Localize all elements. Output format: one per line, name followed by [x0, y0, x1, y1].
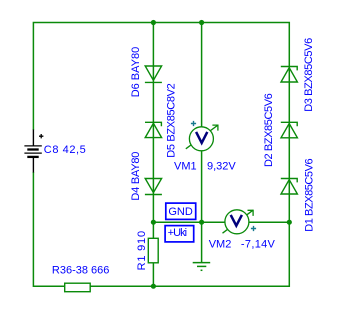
svg-text:C8 42,5: C8 42,5: [44, 144, 86, 156]
svg-text:D3 BZX85C5V6: D3 BZX85C5V6: [303, 38, 315, 112]
svg-text:VM2: VM2: [209, 238, 232, 250]
svg-text:D6 BAY80: D6 BAY80: [130, 47, 142, 98]
svg-text:VM1: VM1: [174, 160, 197, 172]
svg-text:D5 BZX85C8V2: D5 BZX85C8V2: [165, 83, 177, 158]
svg-text:D2 BZX85C5V6: D2 BZX85C5V6: [263, 93, 275, 167]
svg-text:D1 BZX85C5V6: D1 BZX85C5V6: [304, 158, 316, 231]
svg-text:D4 BAY80: D4 BAY80: [130, 152, 142, 201]
svg-text:R36-38 666: R36-38 666: [52, 264, 110, 276]
svg-text:9,32V: 9,32V: [207, 160, 236, 172]
svg-text:-7,14V: -7,14V: [241, 238, 276, 250]
svg-text:+Uki: +Uki: [168, 227, 188, 239]
svg-text:R1 910: R1 910: [136, 231, 148, 271]
svg-text:GND: GND: [168, 206, 193, 218]
